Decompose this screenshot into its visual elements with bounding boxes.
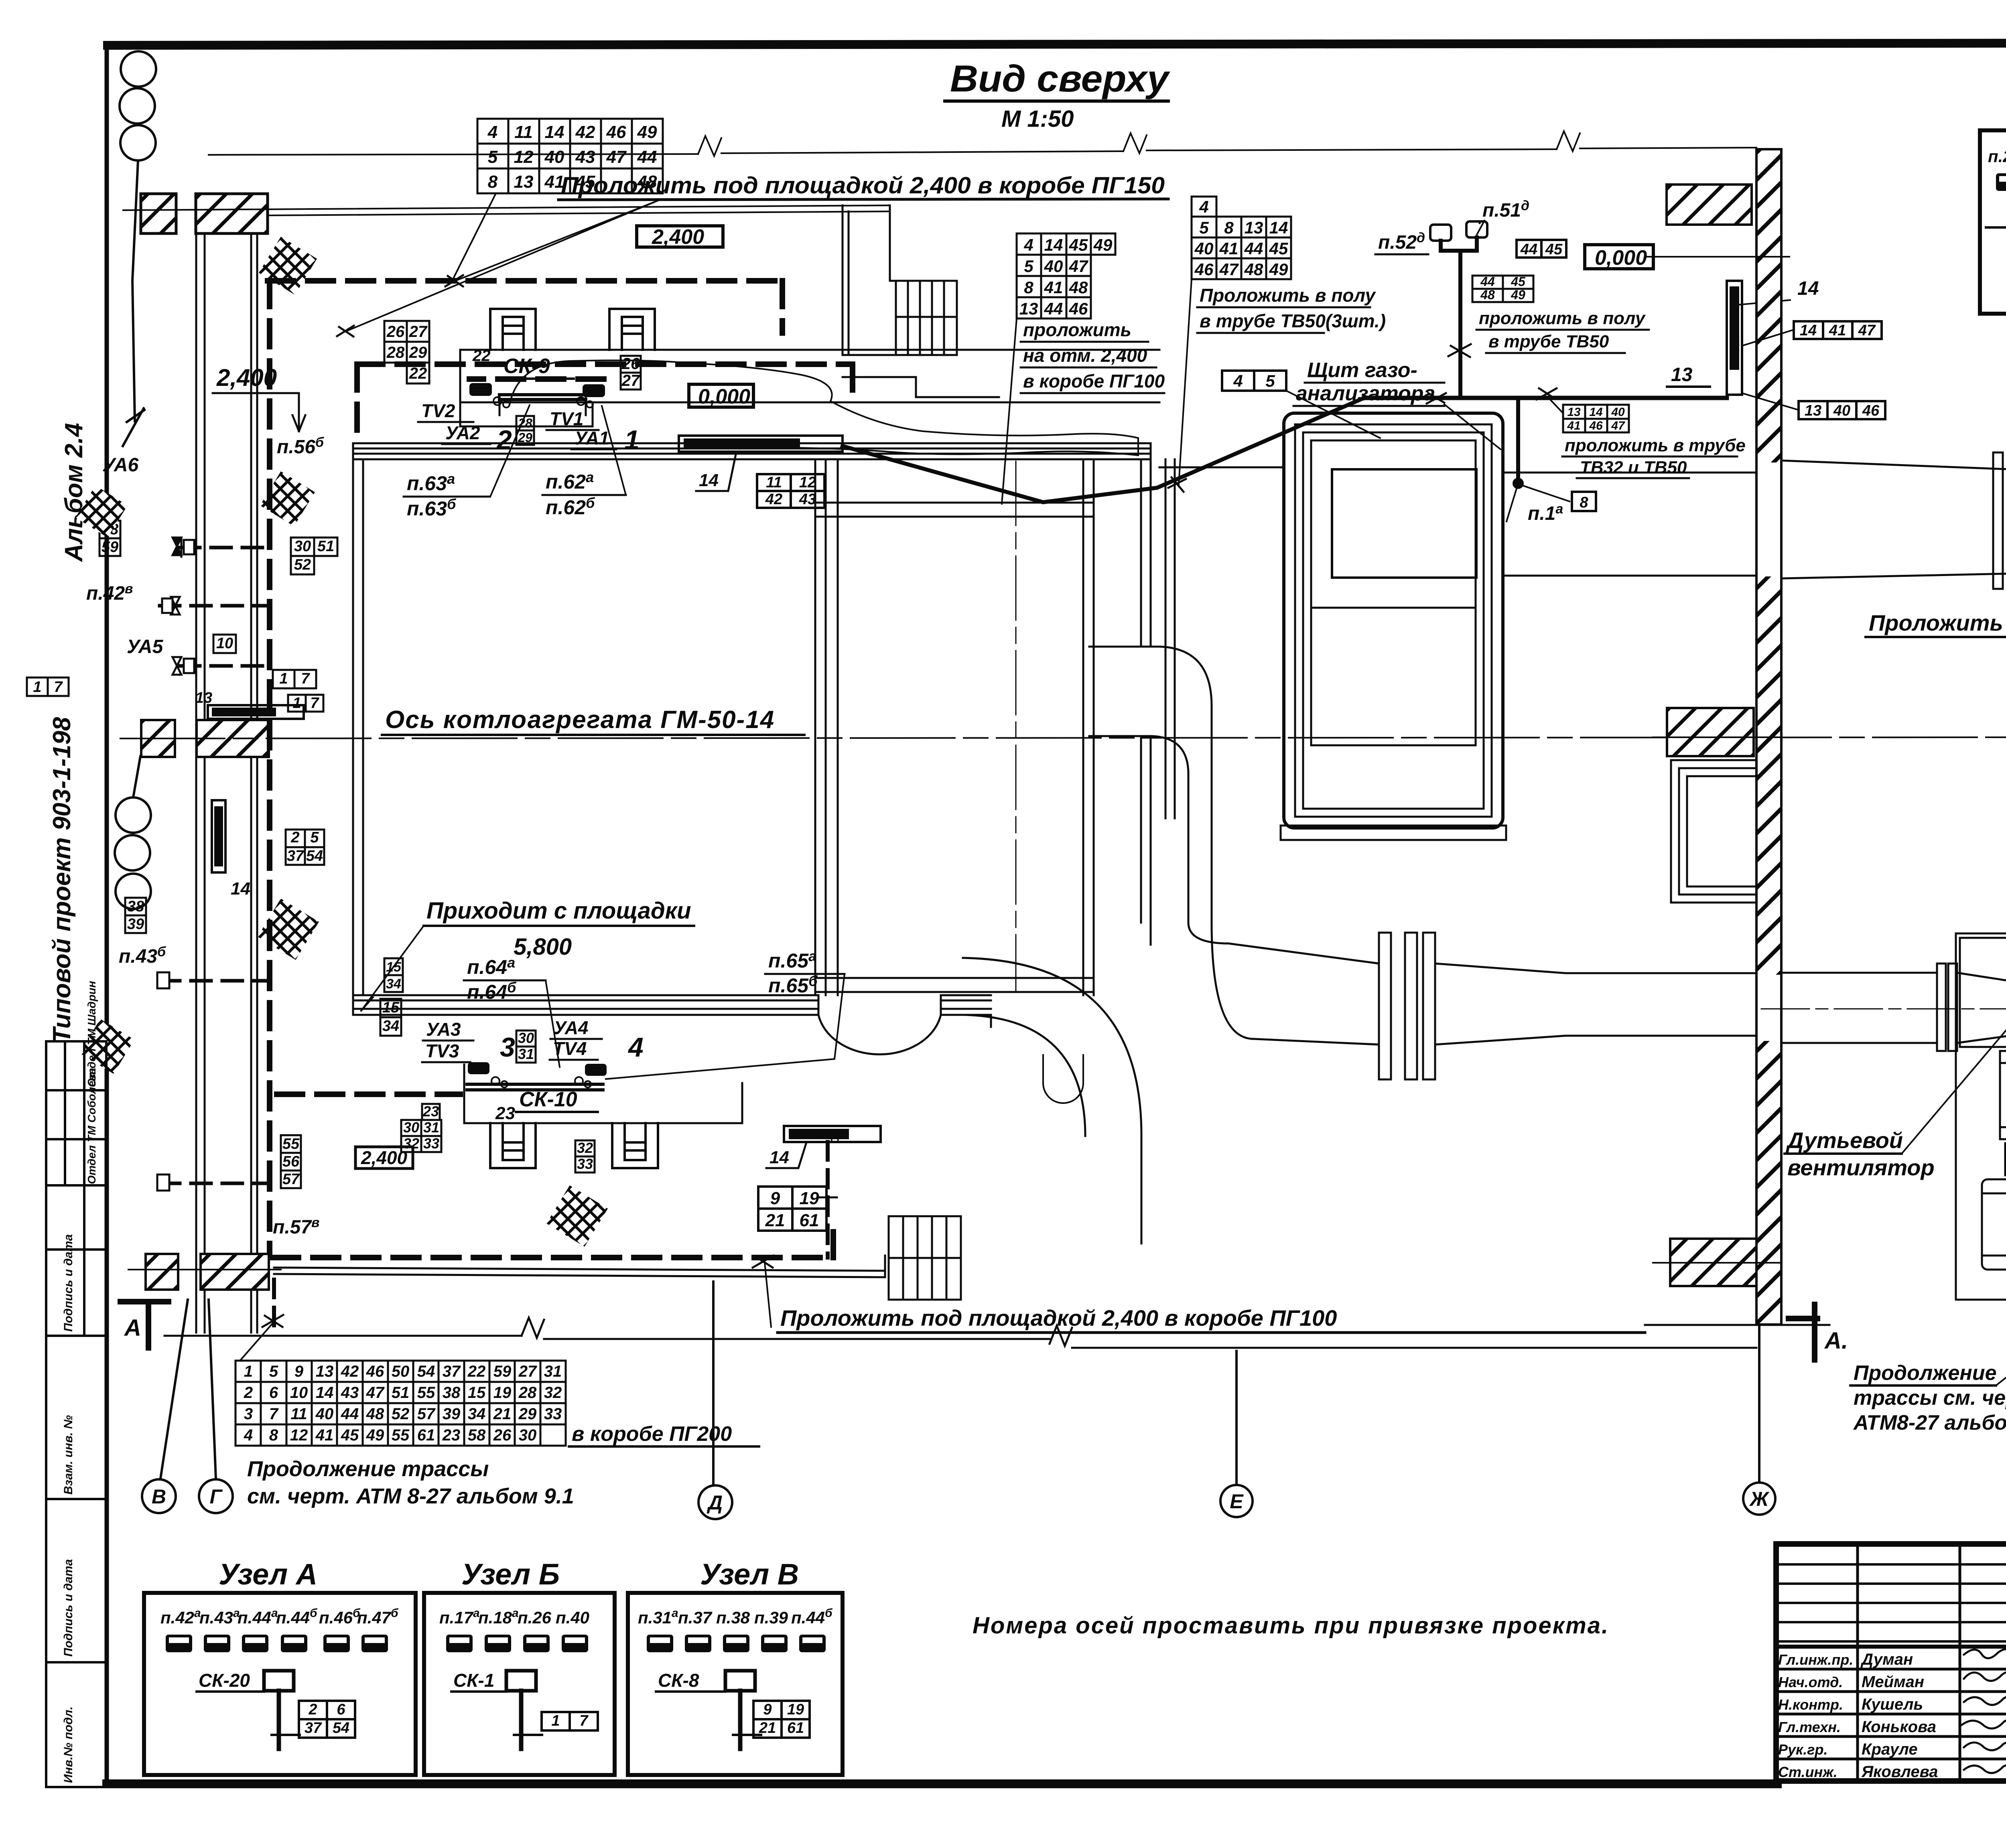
svg-text:31: 31 [544, 1363, 562, 1380]
svg-text:8: 8 [1224, 218, 1234, 237]
svg-text:проложить: проложить [1023, 319, 1131, 340]
svg-text:55: 55 [417, 1384, 435, 1402]
svg-text:п.37: п.37 [678, 1608, 713, 1627]
svg-text:31: 31 [423, 1119, 439, 1136]
svg-text:47: 47 [1611, 419, 1625, 432]
svg-text:44: 44 [1244, 239, 1263, 258]
cross hatch patch below СК-10 [546, 1185, 608, 1247]
small U furnace bottom [1043, 1055, 1083, 1103]
svg-text:46: 46 [1069, 299, 1088, 318]
svg-text:0,000: 0,000 [1595, 246, 1647, 270]
svg-text:21: 21 [765, 1211, 785, 1230]
svg-text:4: 4 [1199, 197, 1208, 216]
svg-text:Продолжение: Продолжение [1854, 1361, 1996, 1385]
svg-text:48: 48 [1244, 260, 1263, 279]
svg-text:4: 4 [244, 1426, 253, 1444]
svg-text:44: 44 [637, 147, 657, 167]
svg-text:3: 3 [500, 1032, 515, 1063]
svg-text:52: 52 [294, 556, 311, 573]
svg-text:А: А [124, 1315, 141, 1341]
labels TV2 УА2 TV1 УА1 [421, 400, 640, 455]
svg-text:37: 37 [305, 1720, 322, 1736]
svg-text:2: 2 [290, 829, 299, 846]
svg-text:Рук.гр.: Рук.гр. [1778, 1741, 1828, 1758]
left small boxes 58/59 [99, 521, 323, 933]
svg-text:Дутьевой: Дутьевой [1786, 1128, 1903, 1153]
svg-text:15: 15 [468, 1384, 486, 1402]
drop to п.1а [1516, 400, 1520, 483]
13 14 40 / 41 46 47 table + note [1563, 405, 1629, 432]
svg-text:Кушель: Кушель [1862, 1696, 1923, 1713]
column circles top left [120, 51, 156, 446]
leader from T2 [241, 1322, 274, 1360]
svg-text:51: 51 [317, 538, 334, 555]
svg-text:33: 33 [544, 1405, 562, 1423]
svg-text:Типовой проект 903-1-198: Типовой проект 903-1-198 [48, 717, 76, 1043]
svg-text:55: 55 [282, 1136, 300, 1152]
svg-text:34: 34 [468, 1405, 486, 1423]
svg-text:7: 7 [579, 1712, 589, 1729]
svg-text:42: 42 [341, 1363, 359, 1380]
svg-text:54: 54 [306, 848, 323, 864]
Щит газоанализатора label [1296, 359, 1435, 405]
svg-text:39: 39 [127, 916, 144, 933]
svg-text:14: 14 [1797, 278, 1819, 299]
svg-text:9: 9 [763, 1701, 772, 1718]
svg-text:п.26: п.26 [518, 1608, 552, 1627]
svg-text:В: В [152, 1485, 166, 1508]
svg-text:Продолжение трассы: Продолжение трассы [247, 1457, 489, 1481]
bellows [1379, 933, 1435, 1079]
axis label [382, 706, 804, 735]
svg-text:13: 13 [514, 172, 534, 192]
svg-text:26: 26 [386, 323, 405, 341]
svg-text:ТВ32 и ТВ50: ТВ32 и ТВ50 [1580, 458, 1687, 477]
svg-text:44: 44 [1520, 241, 1537, 258]
svg-text:13: 13 [1671, 364, 1693, 385]
svg-text:52: 52 [392, 1405, 410, 1423]
svg-text:48: 48 [637, 172, 657, 192]
burner П bottom 2 [612, 1123, 658, 1168]
svg-text:14: 14 [1269, 218, 1288, 237]
svg-text:10: 10 [216, 635, 233, 652]
svg-text:1: 1 [624, 425, 640, 455]
svg-text:Узел А: Узел А [213, 832, 224, 864]
svg-text:49: 49 [366, 1426, 384, 1444]
svg-text:30: 30 [518, 1030, 534, 1046]
svg-text:TV1: TV1 [550, 408, 583, 429]
svg-text:УА2: УА2 [445, 422, 480, 443]
number boxes near СК-9 [384, 321, 641, 445]
svg-text:Гл.инж.пр.: Гл.инж.пр. [1778, 1651, 1853, 1668]
note ПГ100 bottom [753, 1256, 1645, 1333]
svg-text:45: 45 [341, 1426, 359, 1444]
svg-text:5: 5 [310, 829, 319, 846]
svg-text:38: 38 [443, 1384, 461, 1402]
svg-text:19: 19 [493, 1384, 512, 1402]
svg-text:Узел Б: Узел Б [225, 707, 257, 718]
svg-text:47: 47 [366, 1384, 385, 1402]
svg-text:31: 31 [518, 1046, 534, 1062]
wall bottom hatched block [1670, 1239, 1756, 1286]
svg-text:54: 54 [417, 1363, 435, 1380]
svg-text:1: 1 [551, 1712, 560, 1729]
svg-text:57: 57 [417, 1405, 436, 1423]
burner П top 2 [609, 309, 655, 350]
svg-text:49: 49 [1093, 235, 1113, 254]
svg-text:5: 5 [1024, 257, 1033, 276]
svg-text:4: 4 [487, 122, 497, 142]
svg-text:44: 44 [1480, 274, 1495, 289]
svg-text:13: 13 [1019, 299, 1038, 318]
boxes right of wall [1794, 321, 1885, 419]
svg-text:21: 21 [493, 1405, 512, 1423]
svg-text:29: 29 [518, 1405, 537, 1423]
svg-text:Альбом 2.4: Альбом 2.4 [60, 423, 88, 562]
thick cable to wall [843, 398, 1364, 502]
svg-text:39: 39 [443, 1405, 461, 1423]
svg-text:13: 13 [1245, 218, 1263, 237]
svg-text:28: 28 [386, 344, 405, 361]
svg-text:Инв.№ подл.: Инв.№ подл. [62, 1706, 75, 1783]
svg-text:TV3: TV3 [425, 1041, 459, 1061]
svg-text:Узел Е: Узел Е [1730, 325, 1742, 359]
15/34 box [384, 958, 403, 975]
svg-text:44: 44 [341, 1405, 359, 1423]
svg-text:14: 14 [699, 471, 719, 490]
svg-text:Думан: Думан [1860, 1651, 1913, 1668]
svg-text:27: 27 [621, 372, 640, 389]
svg-text:46: 46 [1862, 402, 1880, 419]
svg-text:33: 33 [577, 1156, 593, 1172]
svg-text:8: 8 [488, 172, 498, 192]
svg-text:14: 14 [231, 879, 250, 899]
svg-text:47: 47 [1219, 260, 1239, 279]
leader from T1 to plan [453, 194, 495, 280]
svg-text:Узел Г: Узел Г [718, 438, 755, 450]
44 45 48 49 table [1472, 276, 1533, 302]
svg-text:45: 45 [1069, 235, 1088, 254]
title Вид сверху [945, 57, 1171, 132]
svg-text:61: 61 [417, 1426, 435, 1444]
svg-text:TV2: TV2 [421, 400, 455, 421]
floor line bottom right of wall [1645, 1324, 1829, 1326]
Приходит с площадки 5,800 [424, 898, 694, 960]
svg-text:14: 14 [770, 1148, 789, 1167]
svg-text:45: 45 [1269, 239, 1288, 258]
svg-text:13: 13 [1805, 402, 1821, 419]
svg-text:Г: Г [210, 1485, 223, 1508]
svg-text:Мейман: Мейман [1862, 1673, 1924, 1691]
svg-text:55: 55 [392, 1426, 410, 1444]
table T1 top [477, 119, 663, 193]
svg-text:48: 48 [1069, 278, 1088, 297]
big cable table T2 [236, 1361, 566, 1446]
svg-text:2,400: 2,400 [652, 225, 704, 249]
gas duct from boiler right [1089, 647, 1756, 1045]
svg-text:58: 58 [468, 1426, 486, 1444]
left vertical labels [86, 435, 324, 1238]
svg-text:23: 23 [442, 1426, 461, 1444]
svg-text:46: 46 [1589, 419, 1603, 432]
svg-text:Ось котлоагрегата ГМ-50-14: Ось котлоагрегата ГМ-50-14 [385, 706, 775, 734]
svg-text:в трубе ТВ50(3шт.): в трубе ТВ50(3шт.) [1200, 310, 1386, 331]
svg-text:48: 48 [366, 1405, 384, 1423]
svg-text:проложить в полу: проложить в полу [1479, 308, 1646, 328]
svg-text:30: 30 [519, 1426, 537, 1444]
svg-text:40: 40 [1044, 257, 1063, 276]
svg-text:Нач.отд.: Нач.отд. [1778, 1674, 1843, 1690]
furnace centre line [1015, 461, 1017, 991]
svg-text:2,400: 2,400 [361, 1147, 408, 1168]
svg-text:Узел В: Узел В [700, 1558, 799, 1591]
valve stubs across corridor [160, 548, 267, 981]
signature table columns [1858, 1544, 2006, 1781]
svg-text:Подпись и дата: Подпись и дата [62, 1559, 75, 1657]
svg-text:42: 42 [575, 122, 595, 142]
2,400 upper box [637, 226, 723, 247]
svg-text:46: 46 [366, 1363, 384, 1380]
note в полу ТВ50 [1200, 285, 1386, 331]
svg-text:анализатора: анализатора [1296, 382, 1435, 405]
svg-text:19: 19 [787, 1701, 804, 1718]
svg-text:40: 40 [1833, 402, 1850, 419]
svg-text:47: 47 [1858, 322, 1876, 339]
svg-text:Взам. инв. №: Взам. инв. № [62, 1415, 75, 1495]
svg-text:5: 5 [1199, 218, 1209, 237]
svg-text:Д: Д [707, 1491, 723, 1514]
svg-text:Н.контр.: Н.контр. [1778, 1696, 1843, 1713]
svg-text:29: 29 [409, 344, 427, 361]
svg-text:2: 2 [308, 1701, 317, 1718]
node box Узел Б [424, 1558, 615, 1775]
hatched wall block top 2 [196, 194, 268, 233]
hatched wall block top 1 [141, 194, 176, 233]
wall mid hatched block [1667, 708, 1754, 756]
svg-text:5: 5 [488, 147, 498, 167]
0,000 right box [1585, 245, 1653, 269]
9 19 21 61 table [758, 1187, 826, 1231]
узел А/Б small plates on corridor [208, 705, 304, 872]
svg-text:48: 48 [1480, 288, 1495, 302]
texts right [1786, 610, 2006, 1207]
svg-text:41: 41 [544, 172, 564, 192]
svg-text:22: 22 [467, 1363, 486, 1380]
note ПГ150 [337, 172, 1168, 337]
svg-text:37: 37 [443, 1363, 461, 1380]
dimension line top with breaks [209, 131, 1756, 156]
table T3 [1017, 233, 1115, 318]
svg-text:59: 59 [102, 539, 118, 556]
svg-text:Проложить под площадкой 2,400: Проложить под площадкой 2,400 в коробе П… [780, 1305, 1337, 1331]
svg-text:43: 43 [799, 491, 816, 508]
svg-text:26: 26 [493, 1426, 512, 1444]
svg-text:проложить в трубе: проложить в трубе [1565, 436, 1746, 455]
svg-text:УА3: УА3 [426, 1019, 461, 1040]
svg-text:13: 13 [1567, 406, 1581, 419]
svg-text:49: 49 [1269, 260, 1288, 279]
hatched wall blocks bottom row [146, 1254, 178, 1290]
boiler right casing lines [1165, 459, 1175, 818]
svg-text:Крауле: Крауле [1862, 1740, 1918, 1758]
svg-text:в коробе ПГ100: в коробе ПГ100 [1023, 371, 1165, 392]
svg-text:57: 57 [282, 1171, 300, 1188]
svg-text:42: 42 [765, 491, 782, 508]
svg-text:10: 10 [290, 1384, 308, 1402]
svg-text:27: 27 [518, 1363, 537, 1380]
axis hatched blocks mid-left [141, 720, 175, 757]
svg-text:п.39: п.39 [754, 1608, 788, 1627]
svg-text:12: 12 [290, 1426, 308, 1444]
svg-text:СК-8: СК-8 [658, 1670, 699, 1691]
svg-text:19: 19 [800, 1189, 819, 1208]
svg-text:32: 32 [577, 1140, 593, 1156]
svg-text:47: 47 [1069, 257, 1088, 276]
svg-text:32: 32 [544, 1384, 562, 1402]
boiler axis line [120, 737, 2006, 738]
svg-text:Щит газо-: Щит газо- [1307, 359, 1417, 382]
svg-text:6: 6 [337, 1701, 345, 1718]
svg-text:22: 22 [409, 365, 427, 382]
svg-text:УА6: УА6 [102, 454, 139, 476]
svg-text:Яковлева: Яковлева [1861, 1763, 1938, 1781]
svg-text:30: 30 [403, 1119, 419, 1136]
svg-text:50: 50 [392, 1363, 410, 1380]
svg-text:1: 1 [33, 679, 41, 696]
svg-text:34: 34 [386, 976, 401, 992]
svg-text:АТМ8-27 альбом 9.1: АТМ8-27 альбом 9.1 [1853, 1411, 2006, 1434]
svg-text:7: 7 [54, 679, 63, 696]
svg-text:1: 1 [292, 695, 301, 712]
big flue elbow boiler bottom [963, 958, 1141, 1243]
svg-text:Ж: Ж [1749, 1488, 1770, 1510]
2,400 lower box [355, 1147, 413, 1168]
svg-text:8: 8 [1024, 278, 1033, 297]
svg-text:14: 14 [1589, 406, 1603, 419]
node box Узел Г [1980, 91, 2006, 314]
cross hatch patches left [259, 237, 317, 295]
svg-text:Проложить в полу: Проложить в полу [1200, 285, 1377, 306]
svg-text:30: 30 [294, 538, 311, 555]
svg-text:см. черт. АТМ 8-27 альбом 9.1: см. черт. АТМ 8-27 альбом 9.1 [247, 1484, 574, 1508]
svg-text:5: 5 [1265, 371, 1275, 390]
svg-text:Номера осей проставить при при: Номера осей проставить при привязке прое… [973, 1613, 1609, 1639]
svg-text:4: 4 [1233, 371, 1243, 390]
svg-text:14: 14 [1044, 235, 1063, 254]
svg-text:21: 21 [759, 1720, 776, 1736]
svg-text:6: 6 [269, 1384, 278, 1402]
4 5 box with leader [1222, 371, 1286, 391]
rail line through blocks [123, 205, 890, 215]
svg-text:вентилятор: вентилятор [1787, 1155, 1935, 1180]
Узел Д plate bottom [766, 1126, 881, 1258]
svg-text:на отм. 2,400: на отм. 2,400 [1023, 345, 1147, 366]
0,000 zone cloud [510, 360, 1138, 455]
svg-text:47: 47 [606, 147, 627, 167]
floor lines [164, 1318, 1756, 1348]
convective shaft inner [815, 459, 1094, 995]
Узел Г plate top [679, 436, 843, 491]
svg-text:п.40: п.40 [556, 1608, 589, 1627]
svg-text:9: 9 [294, 1363, 304, 1380]
svg-text:в трубе ТВ50: в трубе ТВ50 [1488, 332, 1609, 351]
svg-text:61: 61 [800, 1211, 819, 1230]
lower-left stubs [160, 1182, 267, 1185]
svg-text:0,000: 0,000 [698, 385, 750, 408]
п.64 п.65 labels with leaders [467, 948, 818, 1003]
svg-text:41: 41 [1044, 278, 1063, 297]
п.63 п.62 labels [407, 469, 595, 520]
svg-text:13: 13 [195, 690, 212, 706]
floor lines panel to wall [1159, 467, 1756, 576]
svg-text:7: 7 [310, 695, 319, 712]
svg-text:23: 23 [495, 1104, 515, 1123]
mid-left column circles [115, 756, 151, 909]
corridor double lines [196, 233, 257, 1333]
0,000 box [689, 384, 753, 407]
svg-text:54: 54 [333, 1720, 349, 1736]
svg-text:44: 44 [1044, 299, 1063, 318]
svg-text:5,800: 5,800 [514, 934, 572, 960]
svg-text:43: 43 [575, 147, 595, 167]
svg-text:Е: Е [1230, 1490, 1244, 1513]
svg-text:7: 7 [301, 670, 310, 687]
svg-text:13: 13 [316, 1363, 334, 1380]
svg-text:49: 49 [1511, 288, 1525, 302]
svg-text:11: 11 [290, 1405, 307, 1423]
svg-text:29: 29 [518, 430, 532, 445]
svg-text:46: 46 [606, 122, 626, 142]
svg-text:трассы см. черт.: трассы см. черт. [1854, 1386, 2006, 1410]
note в полу ТВ50 (right) [1479, 308, 1646, 351]
section mark A left [120, 1302, 169, 1348]
boiler outer walls [353, 443, 1151, 1015]
svg-text:Ст.инж.: Ст.инж. [1778, 1764, 1837, 1780]
svg-text:7: 7 [269, 1405, 279, 1423]
svg-text:34: 34 [382, 1018, 399, 1035]
11 12 42 43 table [757, 474, 824, 508]
svg-text:8: 8 [1580, 494, 1588, 511]
svg-text:28: 28 [518, 1384, 537, 1402]
burner П bottom 1 [490, 1123, 536, 1168]
svg-text:4: 4 [1023, 235, 1033, 254]
svg-text:61: 61 [787, 1720, 804, 1736]
svg-text:14: 14 [1800, 322, 1817, 339]
C-shape structure [1671, 760, 1756, 903]
title block (stamp) bottom right [1776, 1544, 2006, 1781]
1 7 box left margin [27, 678, 69, 696]
Продолжение трассы (bottom-left) [247, 1457, 574, 1508]
svg-text:СК-10: СК-10 [519, 1088, 577, 1111]
svg-text:п.38: п.38 [716, 1608, 750, 1627]
svg-text:Конькова: Конькова [1862, 1718, 1936, 1736]
svg-text:Узел Д: Узел Д [802, 1128, 840, 1141]
svg-text:41: 41 [1567, 419, 1580, 432]
svg-text:33: 33 [423, 1135, 439, 1152]
svg-text:п.27а: п.27а [1988, 145, 2006, 166]
svg-text:А.: А. [1824, 1328, 1848, 1354]
svg-text:4: 4 [627, 1032, 644, 1063]
platform lower double line [274, 1268, 885, 1277]
node box Узел А [144, 1558, 416, 1775]
svg-text:9: 9 [770, 1189, 780, 1208]
svg-text:45: 45 [1545, 241, 1563, 258]
svg-text:Узел А: Узел А [219, 1558, 317, 1591]
svg-text:Отдел ТМ Соболева: Отдел ТМ Соболева [85, 1068, 98, 1184]
svg-text:45: 45 [575, 172, 595, 192]
svg-text:12: 12 [514, 147, 534, 167]
svg-text:51: 51 [392, 1384, 410, 1402]
